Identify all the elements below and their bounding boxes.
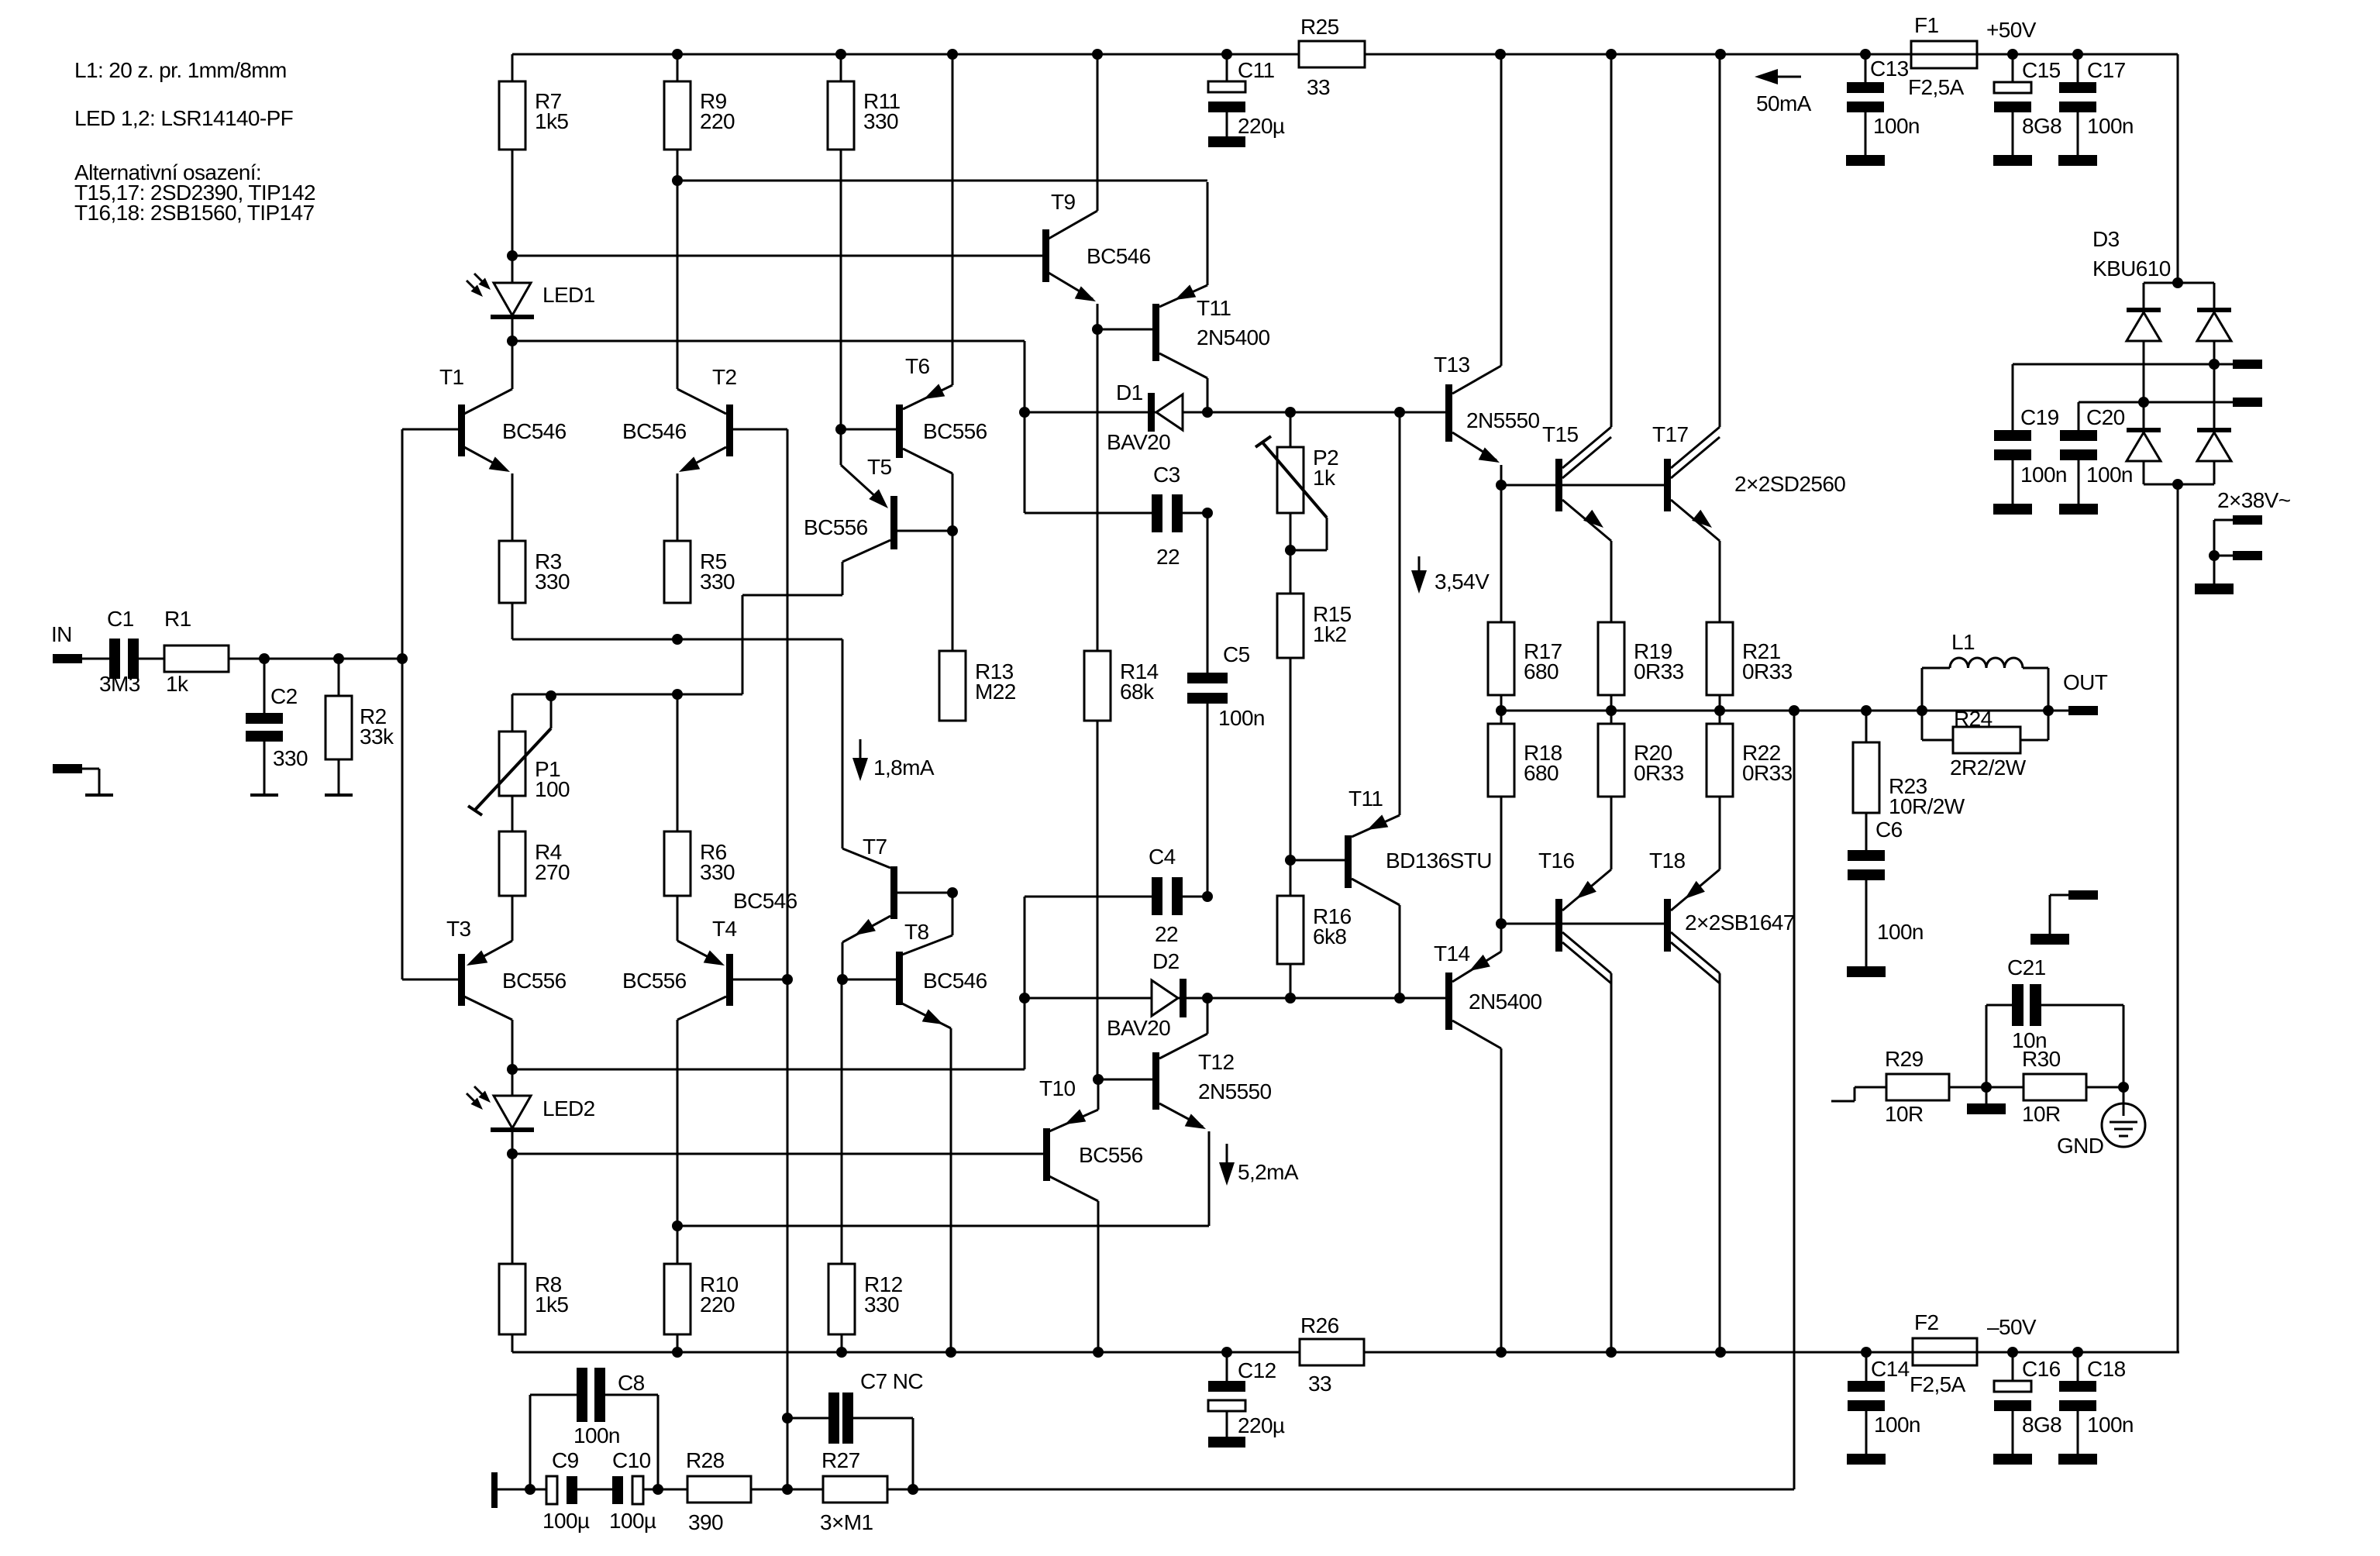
svg-text:100n: 100n xyxy=(2020,463,2067,487)
svg-text:2×2SD2560: 2×2SD2560 xyxy=(1734,472,1845,496)
resistor R18 xyxy=(1488,724,1562,797)
wire tail to T7 xyxy=(842,639,844,849)
transistor T2 xyxy=(622,181,787,541)
svg-text:3M3: 3M3 xyxy=(99,672,140,696)
terminal input ground xyxy=(53,764,99,795)
transistor T11 xyxy=(1097,182,1270,412)
svg-text:T3: T3 xyxy=(446,917,471,941)
resistor R5 xyxy=(664,541,735,603)
svg-text:F2: F2 xyxy=(1914,1310,1939,1334)
svg-text:KBU610: KBU610 xyxy=(2092,256,2171,281)
svg-text:T6: T6 xyxy=(905,354,930,378)
fuse F2 xyxy=(1910,1310,1977,1396)
svg-text:330: 330 xyxy=(863,109,898,133)
svg-text:100n: 100n xyxy=(1874,1413,1920,1437)
svg-text:D2: D2 xyxy=(1152,949,1180,973)
svg-text:2×2SB1647: 2×2SB1647 xyxy=(1685,911,1795,935)
resistor R29 xyxy=(1831,1047,1949,1126)
resistor R3 xyxy=(499,541,570,603)
svg-text:BAV20: BAV20 xyxy=(1107,1016,1170,1040)
svg-text:330: 330 xyxy=(700,860,735,884)
svg-text:68k: 68k xyxy=(1120,680,1155,704)
svg-text:100n: 100n xyxy=(1877,920,1924,944)
wire T15 T17 base row xyxy=(1501,484,1664,487)
svg-text:L1: L1 xyxy=(1951,630,1975,654)
svg-text:C13: C13 xyxy=(1870,57,1909,81)
svg-text:1k5: 1k5 xyxy=(535,109,568,133)
svg-text:T16,18: 2SB1560, TIP147: T16,18: 2SB1560, TIP147 xyxy=(74,201,314,225)
resistor R10 xyxy=(664,1220,739,1352)
wire R15 to R16 xyxy=(1285,658,1296,896)
capacitor C17 xyxy=(2059,54,2134,155)
voltage arrow 3,54V xyxy=(1411,556,1490,594)
terminal spare xyxy=(2050,890,2098,934)
svg-text:100µ: 100µ xyxy=(609,1509,656,1533)
svg-text:10R/2W: 10R/2W xyxy=(1889,794,1965,818)
transistor T4 xyxy=(622,896,793,1226)
svg-text:BC546: BC546 xyxy=(1087,244,1151,268)
svg-text:C16: C16 xyxy=(2022,1357,2061,1381)
ground C14 xyxy=(1847,1454,1886,1465)
resistor R11 xyxy=(828,54,901,150)
svg-text:100n: 100n xyxy=(573,1423,620,1448)
transistor T12 xyxy=(1098,998,1272,1226)
label +50V xyxy=(1986,18,2037,42)
svg-text:R27: R27 xyxy=(821,1448,860,1472)
ground C20 xyxy=(2059,504,2098,515)
svg-text:BC556: BC556 xyxy=(1079,1143,1143,1167)
ground C13 xyxy=(1846,155,1885,166)
resistor R25 xyxy=(1299,15,1365,99)
wire R11 down xyxy=(835,150,846,435)
svg-text:C15: C15 xyxy=(2022,58,2061,82)
capacitor C1 xyxy=(99,607,164,696)
svg-text:OUT: OUT xyxy=(2063,670,2108,694)
terminal feedback left xyxy=(491,1472,536,1508)
svg-text:D1: D1 xyxy=(1116,380,1143,404)
svg-text:–50V: –50V xyxy=(1987,1315,2037,1339)
terminal OUT xyxy=(2048,706,2098,715)
LED LED2 xyxy=(467,1069,595,1154)
wire +rail to bridge xyxy=(2177,54,2179,283)
capacitor C12 xyxy=(1208,1352,1285,1448)
junction R29 R30 xyxy=(1949,1082,2024,1093)
wire T1 base xyxy=(397,429,408,664)
svg-text:C2: C2 xyxy=(270,684,298,708)
transistor T8 xyxy=(837,893,987,1352)
svg-text:270: 270 xyxy=(535,860,570,884)
earth GND symbol xyxy=(2057,1087,2145,1158)
capacitor C14 xyxy=(1848,1352,1920,1454)
svg-text:R28: R28 xyxy=(686,1448,725,1472)
capacitor C10 xyxy=(577,1448,663,1533)
resistor R26 xyxy=(1300,1313,1364,1396)
transistor T16 xyxy=(1538,797,1611,1352)
svg-text:LED 1,2: LSR14140-PF: LED 1,2: LSR14140-PF xyxy=(74,106,293,130)
transistor T11 BD136STU xyxy=(1290,412,1492,998)
capacitor C21 xyxy=(1986,955,2123,1087)
svg-text:1k: 1k xyxy=(1313,466,1336,490)
svg-text:C3: C3 xyxy=(1153,463,1180,487)
wire +50V top rail xyxy=(512,53,2178,56)
svg-text:C6: C6 xyxy=(1875,818,1903,842)
svg-text:T11: T11 xyxy=(1348,787,1383,811)
wire input node xyxy=(229,653,402,664)
junction T13 emitter xyxy=(1496,480,1507,491)
capacitor C4 xyxy=(1019,845,1213,1069)
wire -50V bottom rail xyxy=(512,1351,2179,1354)
resistor R8 xyxy=(499,1154,568,1334)
svg-text:T16: T16 xyxy=(1538,849,1574,873)
ground R29 R30 xyxy=(1967,1087,2006,1114)
capacitor C2 xyxy=(246,659,308,770)
transistor T7 xyxy=(733,835,958,979)
svg-text:C8: C8 xyxy=(618,1371,645,1395)
svg-text:100: 100 xyxy=(535,777,570,801)
svg-text:T4: T4 xyxy=(712,917,737,941)
label 2x2SB1647 xyxy=(1685,911,1795,935)
svg-text:C20: C20 xyxy=(2086,405,2125,429)
svg-text:2R2/2W: 2R2/2W xyxy=(1950,756,2027,780)
svg-text:+50V: +50V xyxy=(1986,18,2037,42)
label OUT xyxy=(2063,670,2108,694)
svg-text:330: 330 xyxy=(273,746,308,770)
wire OUT rail xyxy=(1496,695,2068,724)
capacitor C8 xyxy=(530,1368,658,1489)
svg-text:33k: 33k xyxy=(360,725,394,749)
wire LED1 row xyxy=(512,341,1025,412)
svg-text:C11: C11 xyxy=(1238,58,1275,82)
transistor T17 xyxy=(1652,54,1720,622)
svg-text:0R33: 0R33 xyxy=(1634,659,1684,683)
wire D2 row xyxy=(1025,993,1445,1003)
capacitor C15 xyxy=(1994,54,2061,155)
resistor R24 xyxy=(1922,707,2048,780)
svg-text:10R: 10R xyxy=(1885,1102,1924,1126)
svg-text:BC556: BC556 xyxy=(923,419,987,443)
resistor R21 xyxy=(1707,622,1793,695)
junction T3 collector xyxy=(507,1064,518,1075)
resistor R7 xyxy=(499,54,568,150)
resistor R30 xyxy=(2022,1047,2129,1126)
svg-text:R1: R1 xyxy=(164,607,191,631)
ground AC input xyxy=(2195,583,2234,594)
wire T3 collector row xyxy=(512,1069,1025,1071)
resistor R28 xyxy=(658,1448,787,1534)
svg-text:33: 33 xyxy=(1307,75,1330,99)
svg-text:1k5: 1k5 xyxy=(535,1293,568,1317)
svg-text:T14: T14 xyxy=(1434,942,1469,966)
svg-text:D3: D3 xyxy=(2092,227,2120,251)
potentiometer P2 xyxy=(1255,412,1338,556)
svg-text:R26: R26 xyxy=(1300,1313,1339,1337)
transistor T9 xyxy=(512,54,1151,329)
svg-text:330: 330 xyxy=(700,570,735,594)
resistor R1 xyxy=(164,607,229,696)
terminal AC1 xyxy=(2233,360,2262,369)
wire bridge AC right xyxy=(2013,359,2233,370)
svg-text:LED1: LED1 xyxy=(542,283,595,307)
terminal AC2 xyxy=(2233,398,2262,407)
resistor R14 xyxy=(1084,651,1159,721)
svg-text:3,54V: 3,54V xyxy=(1435,570,1490,594)
terminal IN xyxy=(53,654,99,663)
svg-text:2×38V~: 2×38V~ xyxy=(2217,488,2291,512)
resistor R16 xyxy=(1277,896,1352,998)
capacitor C11 xyxy=(1208,54,1285,147)
transistor T10 xyxy=(512,1076,1143,1352)
svg-text:IN: IN xyxy=(51,622,72,646)
junction LED2 bottom xyxy=(507,1148,518,1159)
wire T16 T18 base row xyxy=(1501,923,1664,925)
svg-text:2N5550: 2N5550 xyxy=(1466,408,1540,432)
label 2x2SD2560 xyxy=(1734,472,1845,496)
svg-text:C5: C5 xyxy=(1223,642,1250,666)
LED LED1 xyxy=(467,256,595,341)
svg-text:GND: GND xyxy=(2057,1134,2103,1158)
svg-text:T18: T18 xyxy=(1649,849,1685,873)
ground C18 xyxy=(2058,1454,2097,1465)
svg-text:L1: 20 z. pr. 1mm/8mm: L1: 20 z. pr. 1mm/8mm xyxy=(74,58,287,82)
wire bridge minus to rail xyxy=(2177,484,2179,1352)
svg-text:BC556: BC556 xyxy=(502,969,567,993)
wire R8 to rail xyxy=(511,1334,514,1352)
resistor R17 xyxy=(1488,485,1562,695)
label -50V xyxy=(1987,1315,2037,1339)
svg-text:100n: 100n xyxy=(2086,463,2133,487)
svg-text:0R33: 0R33 xyxy=(1742,761,1793,785)
transistor T14 xyxy=(1434,924,1542,1352)
svg-text:330: 330 xyxy=(864,1293,899,1317)
capacitor C18 xyxy=(2059,1352,2134,1454)
svg-text:C18: C18 xyxy=(2087,1357,2126,1381)
resistor R2 xyxy=(325,659,394,759)
capacitor C20 xyxy=(2060,402,2133,504)
junction T11 base xyxy=(1092,324,1103,335)
junction T12 base xyxy=(1093,1074,1104,1085)
svg-text:220µ: 220µ xyxy=(1238,114,1285,138)
svg-text:BD136STU: BD136STU xyxy=(1386,849,1492,873)
svg-text:R30: R30 xyxy=(2022,1047,2061,1071)
svg-text:BAV20: BAV20 xyxy=(1107,430,1170,454)
svg-text:100µ: 100µ xyxy=(542,1509,590,1533)
wire T11 base to R14 xyxy=(1097,329,1099,651)
wire D1 row xyxy=(1025,407,1445,418)
svg-text:C12: C12 xyxy=(1238,1358,1276,1382)
transistor T1 xyxy=(402,341,567,541)
wire bridge AC left xyxy=(2079,397,2233,408)
ground C15 xyxy=(1993,155,2032,166)
svg-text:T9: T9 xyxy=(1051,190,1076,214)
note text block xyxy=(74,58,315,225)
wire feedback vertical xyxy=(782,429,793,1489)
svg-text:T5: T5 xyxy=(867,455,892,479)
svg-text:3×M1: 3×M1 xyxy=(820,1510,873,1534)
wire R9 node xyxy=(672,150,683,186)
resistor R13 xyxy=(939,531,1016,721)
ground C2 xyxy=(250,742,278,795)
terminal AC input 2 xyxy=(2209,550,2262,583)
resistor R20 xyxy=(1598,711,1684,797)
svg-text:T11: T11 xyxy=(1197,296,1231,320)
diode D2 xyxy=(1107,949,1187,1040)
transistor T6 xyxy=(841,54,987,531)
resistor R22 xyxy=(1707,711,1793,797)
junction T14 emitter xyxy=(1496,918,1507,929)
svg-text:BC556: BC556 xyxy=(804,515,868,539)
resistor R23 xyxy=(1853,711,1965,818)
svg-text:T10: T10 xyxy=(1039,1076,1075,1100)
svg-text:C7 NC: C7 NC xyxy=(860,1369,923,1393)
svg-text:BC556: BC556 xyxy=(622,969,687,993)
svg-text:2N5400: 2N5400 xyxy=(1197,325,1270,349)
wire feedback from OUT xyxy=(913,711,1794,1489)
ground spare xyxy=(2030,934,2069,945)
svg-text:BC546: BC546 xyxy=(923,969,987,993)
wire R7 to LED1 xyxy=(507,150,518,261)
label D3 xyxy=(2092,227,2171,281)
wire R18 to T16 base row xyxy=(1500,797,1503,924)
transistor T5 xyxy=(804,429,958,595)
label IN xyxy=(51,622,72,646)
svg-text:22: 22 xyxy=(1155,922,1178,946)
svg-text:100n: 100n xyxy=(2087,1413,2134,1437)
svg-text:T8: T8 xyxy=(904,920,929,944)
svg-text:2N5400: 2N5400 xyxy=(1469,990,1542,1014)
junction D1 left xyxy=(1019,407,1030,418)
svg-text:1k: 1k xyxy=(166,672,189,696)
wire R9 to T11 emitter xyxy=(677,180,1207,182)
svg-text:C10: C10 xyxy=(612,1448,651,1472)
label 2x38V xyxy=(2217,488,2291,512)
transistor T18 xyxy=(1649,797,1720,1352)
capacitor C9 xyxy=(530,1448,590,1533)
wire R10 node to T12 emitter xyxy=(677,1225,1209,1227)
svg-text:1k2: 1k2 xyxy=(1313,622,1346,646)
svg-text:C17: C17 xyxy=(2087,58,2126,82)
svg-text:10R: 10R xyxy=(2022,1102,2061,1126)
transistor T13 xyxy=(1434,54,1540,485)
diode D1 xyxy=(1107,380,1183,454)
resistor R6 xyxy=(664,694,735,896)
potentiometer P1 xyxy=(468,690,570,815)
svg-text:100n: 100n xyxy=(1218,706,1265,730)
svg-text:T15: T15 xyxy=(1542,422,1578,446)
svg-text:F1: F1 xyxy=(1914,13,1939,37)
capacitor C3 xyxy=(1025,412,1213,569)
svg-text:100n: 100n xyxy=(1873,114,1920,138)
resistor R19 xyxy=(1598,622,1684,695)
svg-text:C19: C19 xyxy=(2020,405,2059,429)
capacitor C19 xyxy=(1994,364,2067,504)
svg-text:C21: C21 xyxy=(2007,955,2046,979)
svg-text:T17: T17 xyxy=(1652,422,1688,446)
svg-text:BC546: BC546 xyxy=(622,419,687,443)
junction dots top rail xyxy=(672,49,2083,60)
svg-text:330: 330 xyxy=(535,570,570,594)
svg-text:220: 220 xyxy=(700,109,735,133)
ground C6 xyxy=(1847,880,1886,977)
wire T3 base xyxy=(401,659,404,979)
svg-text:220: 220 xyxy=(700,1293,735,1317)
svg-text:22: 22 xyxy=(1156,545,1180,569)
svg-text:C9: C9 xyxy=(552,1448,579,1472)
bridge D3 xyxy=(2127,277,2231,490)
svg-text:680: 680 xyxy=(1524,659,1559,683)
svg-text:BC546: BC546 xyxy=(502,419,567,443)
capacitor C16 xyxy=(1994,1352,2061,1454)
ground C19 xyxy=(1993,504,2032,515)
svg-text:8G8: 8G8 xyxy=(2022,1413,2061,1437)
svg-text:R29: R29 xyxy=(1885,1047,1924,1071)
junction feedback node xyxy=(782,1484,793,1495)
resistor R4 xyxy=(499,796,570,896)
svg-text:T12: T12 xyxy=(1198,1050,1234,1074)
wire tail upper xyxy=(512,603,842,645)
svg-text:33: 33 xyxy=(1308,1372,1331,1396)
capacitor C5 xyxy=(1187,513,1265,897)
svg-text:100n: 100n xyxy=(2087,114,2134,138)
svg-text:T1: T1 xyxy=(439,365,464,389)
ground C16 xyxy=(1993,1454,2032,1465)
inductor L1 xyxy=(1917,630,2054,740)
svg-text:T13: T13 xyxy=(1434,353,1469,377)
svg-text:2N5550: 2N5550 xyxy=(1198,1079,1272,1103)
svg-text:8G8: 8G8 xyxy=(2022,114,2061,138)
resistor R12 xyxy=(828,979,903,1352)
ground R2 xyxy=(325,759,353,795)
transistor T15 xyxy=(1542,54,1611,622)
wire T5 collector cross xyxy=(742,595,842,694)
svg-text:C4: C4 xyxy=(1149,845,1176,869)
svg-text:50mA: 50mA xyxy=(1756,91,1812,115)
transistor T3 xyxy=(402,896,567,1069)
svg-text:R24: R24 xyxy=(1954,707,1993,731)
svg-text:T7: T7 xyxy=(863,835,887,859)
svg-text:0R33: 0R33 xyxy=(1742,659,1793,683)
svg-text:C14: C14 xyxy=(1871,1357,1910,1381)
ground C17 xyxy=(2058,155,2097,166)
terminal AC input 1 xyxy=(2214,515,2262,556)
svg-text:R25: R25 xyxy=(1300,15,1339,39)
svg-text:680: 680 xyxy=(1524,761,1559,785)
junction LED1 bottom xyxy=(507,336,518,346)
svg-text:220µ: 220µ xyxy=(1238,1413,1285,1437)
svg-text:1,8mA: 1,8mA xyxy=(873,756,935,780)
current arrow 1,8mA xyxy=(852,739,935,781)
svg-text:LED2: LED2 xyxy=(542,1096,595,1121)
wire R14 to T12 base xyxy=(1097,721,1099,1079)
svg-text:0R33: 0R33 xyxy=(1634,761,1684,785)
svg-text:C1: C1 xyxy=(107,607,134,631)
svg-text:M22: M22 xyxy=(975,680,1016,704)
ground input xyxy=(85,793,113,797)
svg-text:T2: T2 xyxy=(712,365,737,389)
capacitor C7 xyxy=(787,1369,923,1495)
svg-text:5,2mA: 5,2mA xyxy=(1238,1160,1299,1184)
resistor R15 xyxy=(1277,550,1352,658)
svg-text:F2,5A: F2,5A xyxy=(1908,75,1965,99)
current arrow 5,2mA xyxy=(1219,1144,1299,1186)
capacitor C13 xyxy=(1847,54,1920,155)
resistor R9 xyxy=(664,54,735,150)
junction dots bottom rail xyxy=(672,1347,2083,1358)
resistor R27 xyxy=(787,1448,913,1534)
svg-text:F2,5A: F2,5A xyxy=(1910,1372,1966,1396)
wire bottom tail xyxy=(512,689,742,700)
fuse F1 xyxy=(1908,13,1977,99)
current arrow 50mA xyxy=(1755,69,1812,115)
